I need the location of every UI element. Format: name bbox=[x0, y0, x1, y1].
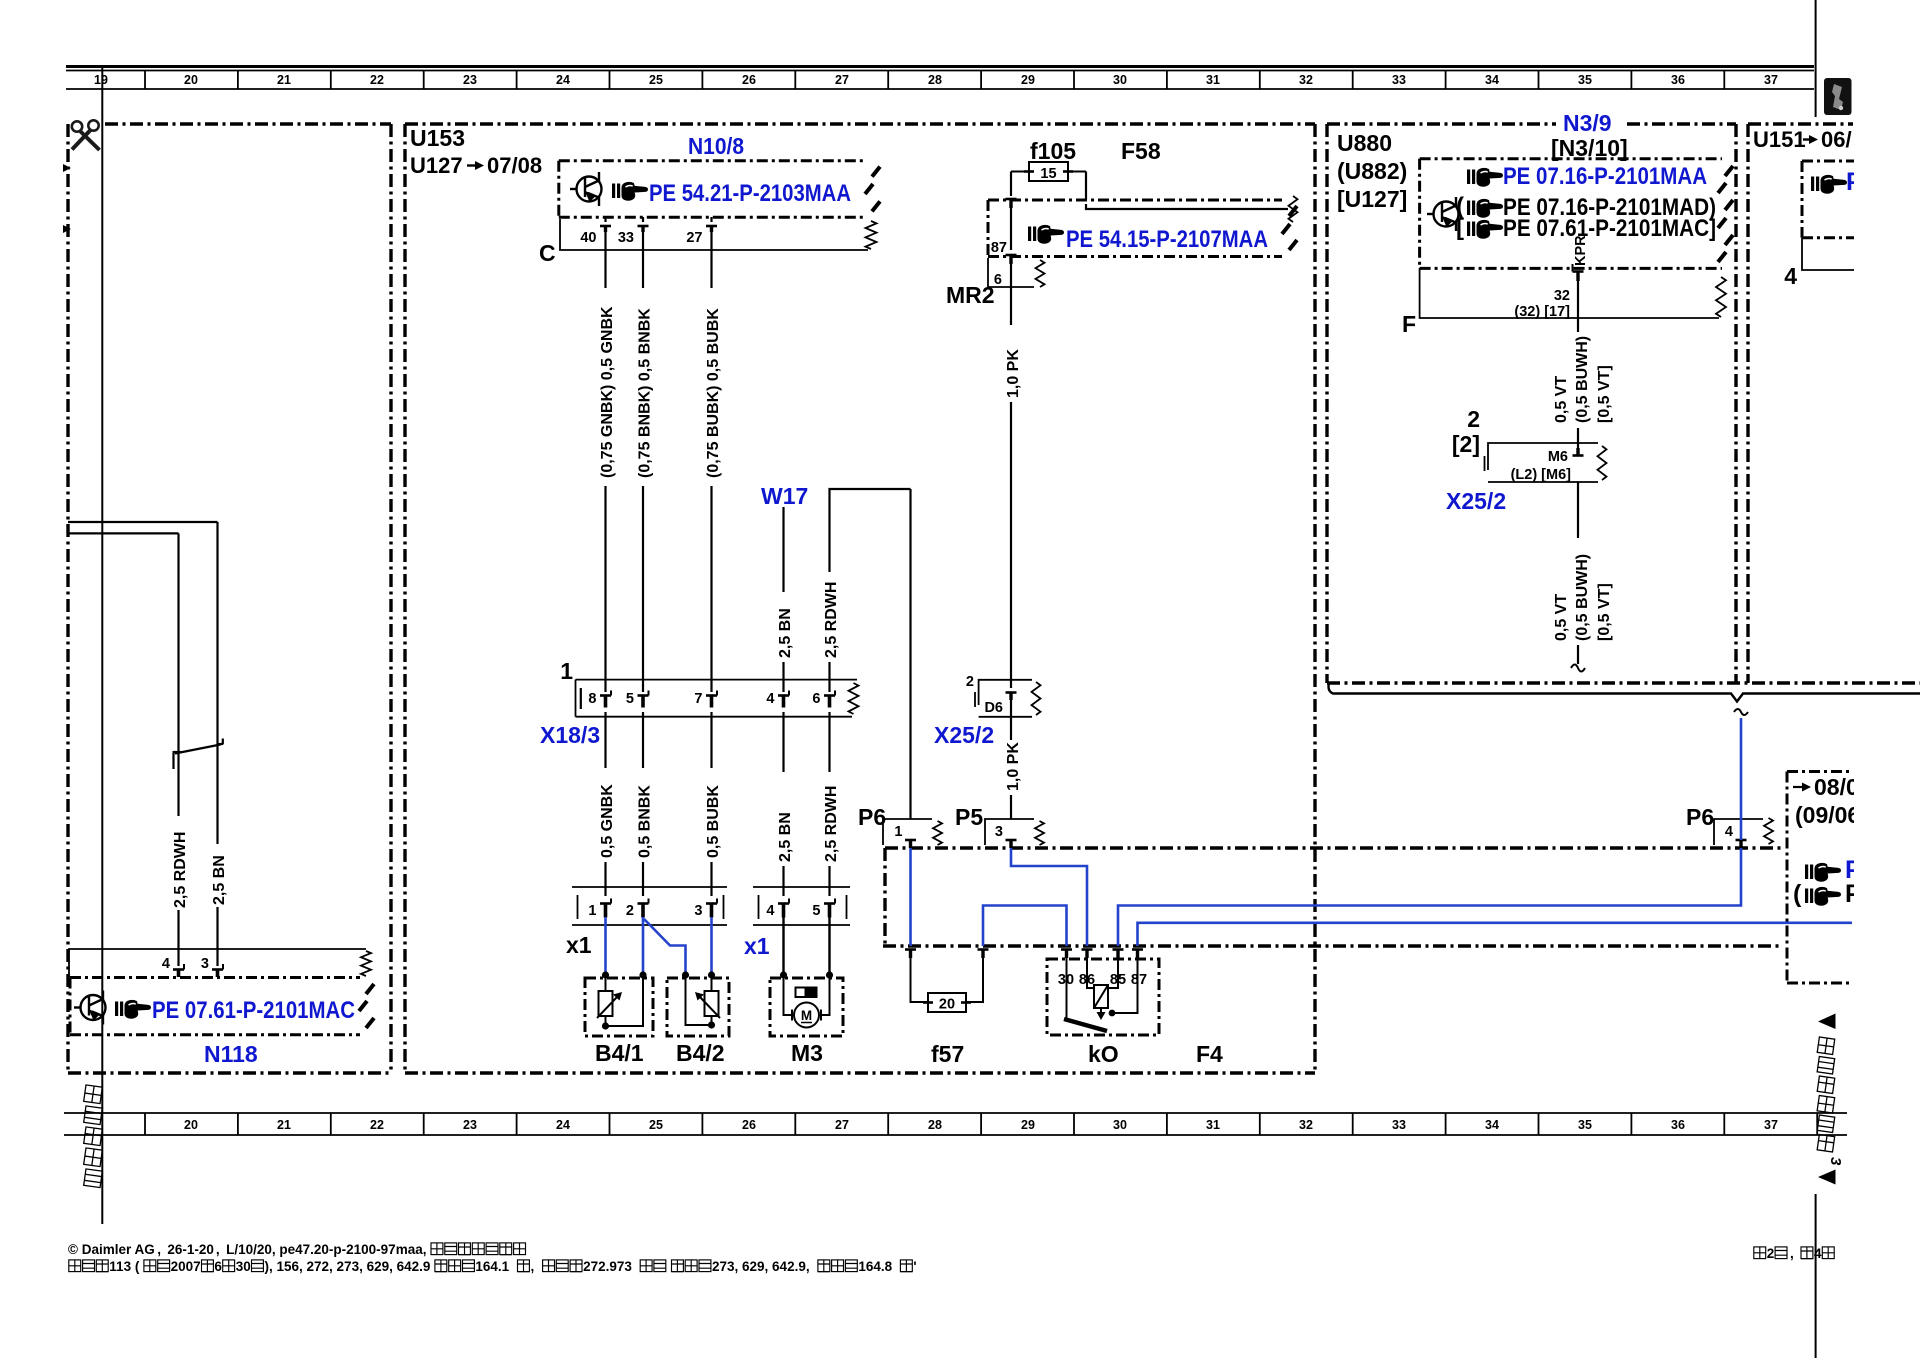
svg-text:24: 24 bbox=[556, 73, 570, 87]
svg-text:), 156, 272, 273, 629, 642.9: ), 156, 272, 273, 629, 642.9 bbox=[265, 1259, 431, 1274]
svg-text:1,0 PK: 1,0 PK bbox=[1005, 349, 1022, 398]
footer line 2 bbox=[69, 1259, 917, 1274]
control unit N118 box bbox=[70, 978, 374, 1035]
P6 pin 4 bbox=[1725, 824, 1747, 848]
svg-text:(: ( bbox=[1793, 880, 1802, 908]
svg-text:P5: P5 bbox=[955, 804, 983, 830]
switch contact bbox=[173, 739, 224, 770]
svg-text:1: 1 bbox=[588, 903, 596, 919]
svg-text:25: 25 bbox=[649, 73, 663, 87]
pointer symbol in N3/9 bbox=[1427, 197, 1459, 231]
svg-text:164.8: 164.8 bbox=[858, 1259, 892, 1274]
KPR pin bbox=[1573, 264, 1584, 281]
wire 2,5 BN horizontal from border bbox=[68, 532, 179, 534]
svg-text:87: 87 bbox=[1131, 972, 1147, 988]
hand icon 08 box line2 bbox=[1793, 880, 1841, 908]
wire inside F58 down to pin 87 bbox=[1010, 206, 1012, 250]
svg-text:M: M bbox=[801, 1008, 812, 1023]
svg-text:19: 19 bbox=[94, 73, 108, 87]
svg-text:(0,75 GNBK) 0,5 GNBK: (0,75 GNBK) 0,5 GNBK bbox=[599, 306, 616, 478]
svg-text:PE 07.61-P-2101MAC]: PE 07.61-P-2101MAC] bbox=[1503, 215, 1716, 242]
P6 pin 1 bbox=[894, 824, 916, 848]
X18/3 pin 7 bbox=[694, 691, 717, 708]
wire 2,5 BN label segment to N118 pin 3 bbox=[211, 740, 228, 966]
f57 value 20 bbox=[939, 997, 955, 1013]
F4 label bbox=[1196, 1041, 1223, 1067]
x1 pin 5 bbox=[812, 899, 835, 920]
hand icon N3/9 line1 bbox=[1467, 168, 1503, 187]
svg-text:U151: U151 bbox=[1753, 127, 1806, 152]
kO pin 87 bbox=[1132, 950, 1143, 959]
U127 -> 07/08 label bbox=[410, 153, 542, 178]
svg-text:6: 6 bbox=[214, 1259, 222, 1274]
svg-text:X25/2: X25/2 bbox=[934, 722, 994, 748]
hand icon U151 box bbox=[1811, 175, 1847, 194]
P6 label bbox=[1686, 804, 1714, 830]
N118 pin 4 bbox=[162, 956, 184, 977]
svg-text:N10/8: N10/8 bbox=[688, 133, 744, 159]
N3/9 label bbox=[1556, 110, 1624, 136]
svg-text:30: 30 bbox=[1113, 1118, 1127, 1132]
fuel level sensor B4/1 box bbox=[585, 978, 653, 1036]
x1 pin 3 bbox=[694, 899, 717, 920]
svg-text:37: 37 bbox=[1764, 1118, 1778, 1132]
svg-text:34: 34 bbox=[1485, 1118, 1499, 1132]
svg-text:31: 31 bbox=[1206, 1118, 1220, 1132]
connector x1 (left) bbox=[572, 887, 727, 925]
wire x1 pin 4 to M3 bbox=[782, 917, 784, 976]
svg-text:[N3/10]: [N3/10] bbox=[1551, 135, 1628, 161]
svg-text:P6: P6 bbox=[1686, 804, 1714, 830]
x1 pin 1 bbox=[588, 899, 611, 920]
svg-text:36: 36 bbox=[1671, 1118, 1685, 1132]
svg-text:37: 37 bbox=[1764, 73, 1778, 87]
svg-text:30: 30 bbox=[236, 1259, 251, 1274]
svg-text:22: 22 bbox=[370, 73, 384, 87]
svg-text:M3: M3 bbox=[791, 1040, 823, 1066]
svg-text:28: 28 bbox=[928, 73, 942, 87]
F4 corridor top border bbox=[885, 846, 1783, 849]
svg-text:2: 2 bbox=[626, 903, 634, 919]
svg-text:[0,5 VT]: [0,5 VT] bbox=[1596, 583, 1613, 641]
fuse f105 label bbox=[1030, 138, 1076, 164]
wire down to switch (right column) bbox=[216, 522, 218, 740]
wire to U880 border squiggle bbox=[1571, 645, 1585, 672]
left harness box border bbox=[68, 124, 391, 1073]
wire KPR to M6 bbox=[1577, 428, 1579, 450]
svg-text:U153: U153 bbox=[410, 125, 465, 151]
svg-text:07/08: 07/08 bbox=[487, 153, 542, 178]
(09/06 label bbox=[1795, 802, 1860, 828]
X25/2 right label bbox=[1446, 488, 1506, 514]
svg-text:23: 23 bbox=[463, 73, 477, 87]
B4/2 label bbox=[676, 1040, 725, 1066]
right margin triangle top bbox=[1818, 1014, 1836, 1030]
kO pin 85 bbox=[1113, 950, 1124, 959]
08/09 continuation box border bbox=[1787, 772, 1853, 984]
N118 pin 3 bbox=[201, 956, 223, 977]
blue wire from U880 rail to P6 right pin4 bbox=[1740, 718, 1743, 840]
svg-text:20: 20 bbox=[939, 997, 955, 1013]
wire 0,5 BNBK X18/3 to x1 bbox=[637, 712, 654, 896]
svg-text:,: , bbox=[1790, 1246, 1794, 1261]
svg-text:87: 87 bbox=[991, 240, 1007, 256]
svg-text:27: 27 bbox=[835, 73, 849, 87]
svg-text:2: 2 bbox=[1467, 406, 1480, 432]
x1 pin 2 bbox=[626, 899, 649, 920]
svg-text:26-1-20: 26-1-20 bbox=[167, 1242, 214, 1257]
wire 2,5 BN from W17 to X18/3 pin 4 bbox=[777, 507, 794, 692]
svg-text:20: 20 bbox=[184, 73, 198, 87]
svg-text:(U882): (U882) bbox=[1337, 158, 1407, 184]
svg-text:36: 36 bbox=[1671, 73, 1685, 87]
svg-text:2,5 RDWH: 2,5 RDWH bbox=[823, 582, 840, 658]
svg-text:27: 27 bbox=[835, 1118, 849, 1132]
B4/2 internals (variable resistor) bbox=[686, 975, 721, 1025]
PE 54.21-P-2103MAA label bbox=[649, 180, 851, 207]
svg-text:5: 5 bbox=[812, 903, 820, 919]
right margin vertical note bbox=[1817, 1037, 1844, 1166]
X25/2 label 2 bbox=[966, 674, 974, 690]
svg-text:1,0 PK: 1,0 PK bbox=[1005, 742, 1022, 791]
svg-text:U127: U127 bbox=[410, 153, 463, 178]
wire 1,0 PK from MR2 to X25/2 D6 bbox=[1005, 264, 1022, 688]
svg-text:24: 24 bbox=[556, 1118, 570, 1132]
svg-text:4: 4 bbox=[1814, 1246, 1822, 1261]
(L2) [M6] label bbox=[1511, 467, 1572, 483]
U151 box border bbox=[1748, 124, 1853, 683]
svg-text:,: , bbox=[157, 1242, 161, 1257]
MR2 label bbox=[946, 282, 995, 308]
hand icon N3/9 line2 bbox=[1456, 193, 1503, 220]
U153 label bbox=[410, 125, 465, 151]
svg-text:33: 33 bbox=[1392, 1118, 1406, 1132]
control unit N10/8 box bbox=[559, 161, 880, 218]
blue wire x1 pin 2 branch to B4/2 bbox=[644, 919, 686, 974]
svg-text:29: 29 bbox=[1021, 1118, 1035, 1132]
svg-text:[2]: [2] bbox=[1452, 431, 1480, 457]
svg-text:29: 29 bbox=[1021, 73, 1035, 87]
svg-text:kO: kO bbox=[1088, 1041, 1119, 1067]
PE 54.15-P-2107MAA label bbox=[1066, 226, 1268, 253]
U151 blue text stub bbox=[1846, 168, 1863, 196]
svg-text:F58: F58 bbox=[1121, 138, 1161, 164]
svg-text:1: 1 bbox=[560, 658, 573, 684]
svg-text:34: 34 bbox=[1485, 73, 1499, 87]
svg-text:31: 31 bbox=[1206, 73, 1220, 87]
P5 label bbox=[955, 804, 983, 830]
svg-text:F4: F4 bbox=[1196, 1041, 1223, 1067]
svg-text:7: 7 bbox=[694, 691, 702, 707]
svg-text:35: 35 bbox=[1578, 1118, 1592, 1132]
X18/3 label bbox=[540, 722, 600, 748]
wire 1,0 PK from D6 to P5 bbox=[1005, 700, 1022, 819]
kO pin 30 bbox=[1061, 950, 1072, 959]
D6 pin bbox=[984, 693, 1016, 717]
left border arrow marks bbox=[63, 164, 71, 233]
connector X18/3 bbox=[560, 658, 858, 717]
svg-text:22: 22 bbox=[370, 1118, 384, 1132]
P6 label bbox=[858, 804, 886, 830]
x1 left label bbox=[566, 932, 592, 958]
wire 2,5 BN X18/3 to x1 bbox=[777, 712, 794, 896]
U127 bracket label bbox=[1337, 186, 1407, 212]
svg-text:32: 32 bbox=[1299, 1118, 1313, 1132]
svg-text:x1: x1 bbox=[744, 933, 770, 959]
U151 inner box (hand icon box) bbox=[1802, 161, 1920, 238]
f105 value 15 bbox=[1040, 166, 1056, 182]
svg-text:25: 25 bbox=[649, 1118, 663, 1132]
PE 07.16-P-2101MAD label bbox=[1503, 194, 1716, 221]
svg-text:x1: x1 bbox=[566, 932, 592, 958]
f57 label bbox=[931, 1041, 964, 1067]
svg-text:40: 40 bbox=[580, 230, 596, 246]
svg-text:32: 32 bbox=[1299, 73, 1313, 87]
relay kO box bbox=[1047, 959, 1159, 1035]
hand icon N3/9 line3 bbox=[1456, 214, 1503, 241]
cut line right (top) bbox=[1815, 0, 1817, 117]
svg-text:N118: N118 bbox=[204, 1041, 258, 1067]
blue wire P5 pin3 to kO 86 bbox=[1011, 848, 1087, 946]
blue wire f57 to kO 30 bbox=[983, 906, 1067, 947]
node W17 label bbox=[761, 483, 808, 509]
svg-text:B4/2: B4/2 bbox=[676, 1040, 725, 1066]
svg-text:0,5 BNBK: 0,5 BNBK bbox=[637, 785, 654, 858]
svg-text:0,5 GNBK: 0,5 GNBK bbox=[599, 784, 616, 858]
(32) [17] label bbox=[1514, 304, 1570, 320]
fuse f105 bbox=[1011, 162, 1086, 181]
svg-text:6: 6 bbox=[994, 272, 1002, 288]
wire f105 right lead down bbox=[1085, 172, 1087, 201]
F4 corridor left border bbox=[883, 848, 886, 946]
svg-text:30: 30 bbox=[1113, 73, 1127, 87]
footer line 1 bbox=[68, 1242, 526, 1257]
F58 pin 87 bbox=[991, 240, 1017, 264]
svg-text:M6: M6 bbox=[1548, 449, 1568, 465]
svg-text:4: 4 bbox=[766, 691, 774, 707]
svg-text:3: 3 bbox=[995, 824, 1003, 840]
blue wire x1 pin 2 to B4/1 bbox=[642, 917, 645, 974]
hand icon N10/8 bbox=[612, 182, 648, 201]
svg-text:U880: U880 bbox=[1337, 130, 1392, 156]
svg-text:2: 2 bbox=[966, 674, 974, 690]
cut line right (bottom) bbox=[1815, 1194, 1817, 1358]
bottom ruler bbox=[64, 1113, 1847, 1135]
svg-text:06/: 06/ bbox=[1821, 127, 1852, 152]
main box U153 border bbox=[405, 124, 1315, 1073]
svg-text:4: 4 bbox=[766, 903, 774, 919]
svg-text:PE 54.21-P-2103MAA: PE 54.21-P-2103MAA bbox=[649, 180, 851, 207]
wire KPR down bbox=[1577, 281, 1579, 332]
wire down (left column) bbox=[177, 533, 179, 753]
svg-text:3: 3 bbox=[1827, 1157, 1844, 1166]
N118 label bbox=[204, 1041, 258, 1067]
svg-text:1: 1 bbox=[894, 824, 902, 840]
wire label 0,5 VT (upper) bbox=[1553, 336, 1613, 423]
svg-text:[U127]: [U127] bbox=[1337, 186, 1407, 212]
blue text stub line1 bbox=[1845, 856, 1862, 884]
svg-text:15: 15 bbox=[1040, 166, 1056, 182]
wire x1 pin 5 to M3 bbox=[828, 917, 830, 976]
PE 07.16-P-2101MAA label bbox=[1503, 163, 1707, 190]
svg-text:(L2) [M6]: (L2) [M6] bbox=[1511, 467, 1572, 483]
svg-text:4: 4 bbox=[1784, 263, 1797, 289]
F58 top pin bbox=[1006, 199, 1017, 208]
svg-text:PE 54.15-P-2107MAA: PE 54.15-P-2107MAA bbox=[1066, 226, 1268, 253]
svg-text:C: C bbox=[539, 240, 556, 266]
cut line left bbox=[101, 66, 103, 1224]
f57 left pin bbox=[905, 950, 916, 959]
connector P6 right bbox=[1714, 818, 1773, 845]
svg-text:2,5 BN: 2,5 BN bbox=[777, 608, 794, 658]
N10/8 label bbox=[688, 133, 744, 159]
svg-text:2,5 RDWH: 2,5 RDWH bbox=[823, 786, 840, 862]
fuel pump M3 box bbox=[770, 978, 843, 1036]
wire (0,75) 0,5 BNBK from N10/8 pin to X18/3 pin 5 bbox=[637, 232, 654, 692]
connector x1 (right) bbox=[753, 887, 850, 925]
svg-text:28: 28 bbox=[928, 1118, 942, 1132]
svg-text:(0,5 BUWH): (0,5 BUWH) bbox=[1574, 554, 1591, 641]
svg-text:P6: P6 bbox=[858, 804, 886, 830]
connector X25/2 (M6) bracket bbox=[1485, 443, 1607, 482]
X18/3 pin 8 bbox=[588, 691, 611, 708]
kO junction dot bbox=[1109, 1010, 1116, 1017]
F consumer bracket bbox=[1420, 268, 1726, 318]
M3 motor M letter bbox=[801, 1008, 812, 1023]
svg-text:6: 6 bbox=[812, 691, 820, 707]
control unit N3/9 box bbox=[1420, 159, 1733, 269]
F58 label bbox=[1121, 138, 1161, 164]
svg-text:26: 26 bbox=[742, 1118, 756, 1132]
F label bbox=[1402, 311, 1416, 337]
wire (0,75) 0,5 GNBK from N10/8 pin to X18/3 pin 8 bbox=[599, 232, 616, 692]
page corner icon bbox=[1824, 78, 1852, 115]
svg-text:(0,75 BUBK) 0,5 BUBK: (0,75 BUBK) 0,5 BUBK bbox=[705, 308, 722, 478]
svg-text:(09/06: (09/06 bbox=[1795, 802, 1860, 828]
wire 2,5 RDWH horizontal from border bbox=[68, 521, 218, 523]
svg-text:,: , bbox=[216, 1242, 220, 1257]
wire 2,5 RDWH label segment to N118 pin 4 bbox=[172, 753, 189, 966]
svg-text:[: [ bbox=[1456, 214, 1464, 241]
wire 2,5 RDWH X18/3 to x1 bbox=[823, 712, 840, 896]
svg-text:2,5 BN: 2,5 BN bbox=[777, 812, 794, 862]
connector X25/2 (D6) bracket bbox=[975, 680, 1041, 717]
svg-text:X25/2: X25/2 bbox=[1446, 488, 1506, 514]
U151 label bbox=[1753, 127, 1852, 152]
svg-text:23: 23 bbox=[463, 1118, 477, 1132]
svg-text:f105: f105 bbox=[1030, 138, 1076, 164]
svg-text:N3/9: N3/9 bbox=[1563, 110, 1612, 136]
svg-text:2,5 RDWH: 2,5 RDWH bbox=[172, 832, 189, 908]
blue wire x1 pin 3 to B4/2 bbox=[710, 917, 713, 974]
svg-text:35: 35 bbox=[1578, 73, 1592, 87]
08/0 continuation label bbox=[1793, 774, 1859, 800]
P5 pin 3 bbox=[995, 824, 1017, 848]
M3 label bbox=[791, 1040, 823, 1066]
blue wire x1 pin 1 to B4/1 bbox=[604, 917, 607, 974]
pointer symbol in N118 bbox=[74, 991, 106, 1025]
svg-text:4: 4 bbox=[1725, 824, 1733, 840]
svg-text:KPR: KPR bbox=[1573, 235, 1589, 266]
right margin triangle bottom bbox=[1818, 1170, 1836, 1185]
svg-text:2: 2 bbox=[1767, 1246, 1775, 1261]
svg-text:MR2: MR2 bbox=[946, 282, 995, 308]
svg-text:[0,5 VT]: [0,5 VT] bbox=[1596, 365, 1613, 423]
fuel level sensor B4/2 box bbox=[667, 978, 729, 1036]
svg-text:(0,75 BNBK) 0,5 BNBK: (0,75 BNBK) 0,5 BNBK bbox=[637, 308, 654, 478]
x1 pin 4 bbox=[766, 899, 789, 920]
svg-text:5: 5 bbox=[626, 691, 634, 707]
B4/1 junction dots bbox=[602, 971, 647, 1029]
svg-text:26: 26 bbox=[742, 73, 756, 87]
PE 07.61-P-2101MAC label bbox=[152, 997, 355, 1024]
pin 32 label bbox=[1554, 288, 1570, 304]
svg-text:21: 21 bbox=[277, 73, 291, 87]
svg-text:PE 07.16-P-2101MAA: PE 07.16-P-2101MAA bbox=[1503, 163, 1707, 190]
blue wire kO 85 to P6 pin4 bbox=[1118, 848, 1741, 946]
svg-text:272.973: 272.973 bbox=[583, 1259, 632, 1274]
wire bus right from f105 inside F58 bbox=[1086, 196, 1298, 222]
svg-text:33: 33 bbox=[618, 230, 634, 246]
svg-text:27: 27 bbox=[686, 230, 702, 246]
svg-text:(0,5 BUWH): (0,5 BUWH) bbox=[1574, 336, 1591, 423]
svg-text:3: 3 bbox=[201, 956, 209, 972]
svg-text:© Daimler AG: © Daimler AG bbox=[68, 1242, 155, 1257]
svg-text:': ' bbox=[913, 1259, 916, 1274]
X25/2 pin2 bracket label bbox=[1452, 431, 1480, 457]
svg-text:,: , bbox=[531, 1259, 535, 1274]
svg-text:0,5 VT: 0,5 VT bbox=[1553, 376, 1570, 423]
svg-text:W17: W17 bbox=[761, 483, 808, 509]
svg-text:164.1: 164.1 bbox=[475, 1259, 509, 1274]
U882 label bbox=[1337, 158, 1407, 184]
svg-text:B4/1: B4/1 bbox=[595, 1040, 644, 1066]
svg-text:3: 3 bbox=[694, 903, 702, 919]
svg-text:21: 21 bbox=[277, 1118, 291, 1132]
B4/1 internals (variable resistor) bbox=[597, 975, 643, 1026]
kO relay internals bbox=[1064, 957, 1138, 1031]
svg-text:33: 33 bbox=[1392, 73, 1406, 87]
kO label bbox=[1088, 1041, 1119, 1067]
svg-text:2007: 2007 bbox=[171, 1259, 201, 1274]
pointer symbol in N10/8 bbox=[570, 172, 602, 206]
wire M6 down bbox=[1577, 482, 1579, 538]
U880 bottom rail line bbox=[1329, 683, 1920, 715]
connector C bracket bbox=[560, 219, 877, 250]
wire 0,5 BUBK X18/3 to x1 bbox=[705, 712, 722, 896]
U151 pin 4 bracket bbox=[1784, 238, 1860, 289]
kO pin 86 bbox=[1082, 950, 1093, 959]
blue wire kO 87 to continuation box bbox=[1138, 923, 1853, 946]
wire 2,5 RDWH from P6 branch to X18/3 pin 6 bbox=[823, 489, 911, 819]
svg-text:4: 4 bbox=[162, 956, 170, 972]
svg-text:PE 07.61-P-2101MAC: PE 07.61-P-2101MAC bbox=[152, 997, 355, 1024]
svg-text:f57: f57 bbox=[931, 1041, 964, 1067]
X25/2 mid label bbox=[934, 722, 994, 748]
black text stub line2 bbox=[1845, 880, 1862, 908]
N118 consumer bracket bbox=[69, 949, 371, 977]
left margin vertical note bbox=[84, 1085, 103, 1188]
blue wire P6 pin1 down to f57 bbox=[909, 848, 912, 946]
X18/3 pin 4 bbox=[766, 691, 789, 708]
kO pin labels 30 86 85 87 bbox=[1058, 972, 1147, 988]
hand icon F58 bbox=[1028, 225, 1064, 244]
x1 right label bbox=[744, 933, 770, 959]
X18/3 pin 5 bbox=[626, 691, 649, 708]
svg-text:0,5 VT: 0,5 VT bbox=[1553, 594, 1570, 641]
U880 label bbox=[1337, 130, 1392, 156]
M6 pin bbox=[1548, 448, 1584, 465]
